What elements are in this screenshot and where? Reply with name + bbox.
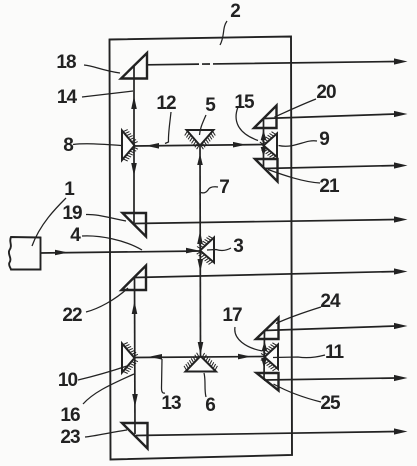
svg-text:16: 16 — [60, 405, 80, 426]
arrow up between prism 11 and prism 24 — [262, 341, 268, 351]
leader line for label 22 — [86, 288, 128, 312]
svg-text:23: 23 — [60, 427, 80, 448]
wire vertical beam column x=134 upper (prism 18 to prism 19) — [133, 65, 135, 225]
arrow leftward toward prism 8 — [146, 143, 159, 149]
svg-text:10: 10 — [58, 370, 78, 391]
mirror prism 22 — [122, 266, 147, 291]
leader line for label 13 — [162, 359, 166, 393]
mirror prism 18 — [121, 53, 147, 79]
svg-text:18: 18 — [56, 52, 76, 73]
arrow up below prism 5 — [197, 154, 203, 166]
leader line for label 3 — [207, 248, 231, 250]
svg-text:11: 11 — [325, 342, 345, 363]
splitter prism 8 — [122, 130, 138, 161]
svg-text:15: 15 — [234, 92, 255, 113]
arrow up between prism 10 and prism 22 — [132, 301, 138, 314]
mirror prism 19 — [123, 213, 147, 237]
leader line for label 6 — [204, 373, 206, 397]
enclosure box 2 — [110, 37, 293, 460]
svg-text:25: 25 — [320, 393, 341, 414]
label 23 — [60, 427, 80, 448]
arrow output from prism 19 — [394, 216, 408, 222]
svg-text:13: 13 — [161, 393, 181, 414]
leader line for label 25 — [274, 384, 322, 402]
label 16 — [60, 405, 80, 426]
label 25 — [320, 393, 341, 414]
label 3 — [233, 236, 243, 257]
svg-text:4: 4 — [70, 225, 81, 246]
mirror prism 20 — [254, 106, 277, 129]
leader line for label 15 — [236, 107, 258, 141]
leader line for label 1 — [32, 198, 66, 246]
svg-text:21: 21 — [319, 176, 340, 197]
label 7 — [219, 177, 229, 198]
label 14 — [57, 87, 78, 108]
leader line for label 19 — [86, 214, 126, 221]
arrow up between prism 9 and prism 20 — [261, 130, 267, 140]
label 5 — [205, 95, 216, 116]
svg-text:5: 5 — [205, 95, 216, 116]
wire output beam from prism 19 — [135, 220, 396, 224]
wire source beam from 1 to prism 3 — [40, 251, 201, 253]
splitter prism 3 — [197, 236, 214, 265]
wire vertical beam bottom-right cluster x=264.5 — [263, 330, 266, 380]
label 19 — [62, 203, 82, 224]
label 9 — [319, 129, 329, 150]
label 4 — [70, 225, 81, 246]
label 13 — [161, 393, 181, 414]
leader line for label 17 — [235, 327, 263, 351]
svg-text:22: 22 — [62, 305, 82, 326]
wire output beam from prism 22 — [135, 272, 396, 278]
svg-text:6: 6 — [205, 395, 215, 416]
label 11 — [325, 342, 345, 363]
svg-text:17: 17 — [222, 305, 242, 326]
arrow up between prism 8 and prism 18 — [131, 96, 137, 109]
mirror prism 23 — [122, 423, 148, 449]
leader line for label 16 — [83, 374, 134, 404]
svg-text:3: 3 — [233, 236, 243, 257]
label 1 — [64, 179, 75, 200]
arrow output from prism 20 — [394, 111, 408, 117]
svg-text:8: 8 — [63, 135, 73, 156]
svg-text:1: 1 — [64, 179, 75, 200]
svg-text:12: 12 — [156, 93, 176, 114]
label 24 — [320, 291, 341, 312]
svg-text:14: 14 — [57, 87, 78, 108]
mirror prism 24 — [256, 318, 279, 340]
label 8 — [63, 135, 73, 156]
wire output beam from prism 24 — [264, 326, 396, 331]
leader line for label 9 — [279, 141, 318, 147]
leader line for label 11 — [273, 355, 325, 358]
svg-text:9: 9 — [319, 129, 329, 150]
wire output beam from prism 23 — [136, 432, 396, 436]
arrow on source beam (rightward) — [55, 250, 68, 256]
leader line for label 5 — [200, 115, 207, 135]
arrow output from prism 23 — [394, 428, 408, 434]
label 2 — [230, 1, 240, 22]
wire vertical beam top-right cluster x=263.5 — [263, 119, 265, 167]
leader line for label 23 — [85, 430, 127, 437]
leader line for label 18 — [84, 65, 120, 73]
svg-text:20: 20 — [316, 82, 336, 103]
label 15 — [234, 92, 255, 113]
label 6 — [205, 395, 215, 416]
wire horizontal beam y=357 from prism 10 to prism 11 — [134, 357, 265, 358]
label 12 — [156, 93, 176, 114]
arrow down between prism 10 and prism 23 — [132, 394, 138, 407]
label 20 — [316, 82, 336, 103]
leader line for label 24 — [276, 307, 321, 324]
splitter prism 9 — [260, 132, 277, 159]
wire output beam from prism 20 — [264, 114, 396, 119]
wire vertical beam column x=134 lower (prism 22 to prism 23) — [134, 277, 137, 434]
label 17 — [222, 305, 242, 326]
wire output beam from prism 18 (dash-dot axis) — [147, 62, 396, 65]
svg-text:2: 2 — [230, 1, 240, 22]
leader line for label 8 — [73, 144, 121, 146]
leader line for label 4 — [82, 236, 142, 250]
svg-text:7: 7 — [219, 177, 229, 198]
leader line for label 10 — [78, 366, 127, 380]
label 18 — [56, 52, 76, 73]
wire horizontal beam y=146 from prism 8 to prism 9 — [134, 145, 264, 147]
wire output beam from prism 21 — [264, 166, 396, 169]
arrow up above prism 3 — [197, 231, 203, 244]
arrow leftward toward prism 10 — [149, 354, 162, 360]
leader line for label 12 — [165, 112, 171, 144]
arrow output from prism 18 (dash-dot axis) — [394, 58, 408, 64]
leader line for label 7 — [201, 187, 218, 193]
arrow rightward toward prism 9 — [233, 142, 246, 148]
splitter prism 11 — [261, 343, 278, 371]
svg-text:19: 19 — [62, 203, 82, 224]
arrow down between prism 8 and prism 19 — [131, 163, 137, 176]
wire output beam from prism 25 — [264, 378, 396, 380]
arrow output from prism 24 — [394, 323, 408, 329]
leader line for label 14 — [82, 91, 133, 97]
arrow down below prism 3 — [198, 259, 204, 272]
splitter prism 10 — [122, 343, 138, 374]
svg-text:24: 24 — [320, 291, 341, 312]
splitter prism 5 — [185, 130, 216, 149]
leader line for label 21 — [268, 170, 320, 184]
arrow down between prism 11 and prism 25 — [261, 358, 267, 368]
mirror prism 25 — [257, 373, 279, 391]
label 10 — [58, 370, 78, 391]
light source 1 (torn-edge block) — [9, 237, 41, 270]
arrow down between prism 9 and prism 21 — [261, 147, 267, 157]
splitter prism 6 — [184, 353, 217, 372]
mirror prism 21 — [255, 159, 278, 182]
arrow output from prism 21 — [394, 162, 408, 168]
arrow output from prism 22 — [394, 268, 408, 274]
label 22 — [62, 305, 82, 326]
arrow down above prism 6 — [198, 342, 204, 355]
arrow rightward toward prism 11 — [238, 354, 251, 360]
arrow output from prism 25 — [394, 375, 408, 381]
leader line for label 2 — [220, 21, 227, 45]
leader line for label 20 — [275, 99, 317, 117]
arrow rightward at prism 3 apex — [186, 248, 199, 254]
wire vertical beam column x=200 (prism 5 to prism 6) — [199, 145, 202, 357]
label 21 — [319, 176, 340, 197]
